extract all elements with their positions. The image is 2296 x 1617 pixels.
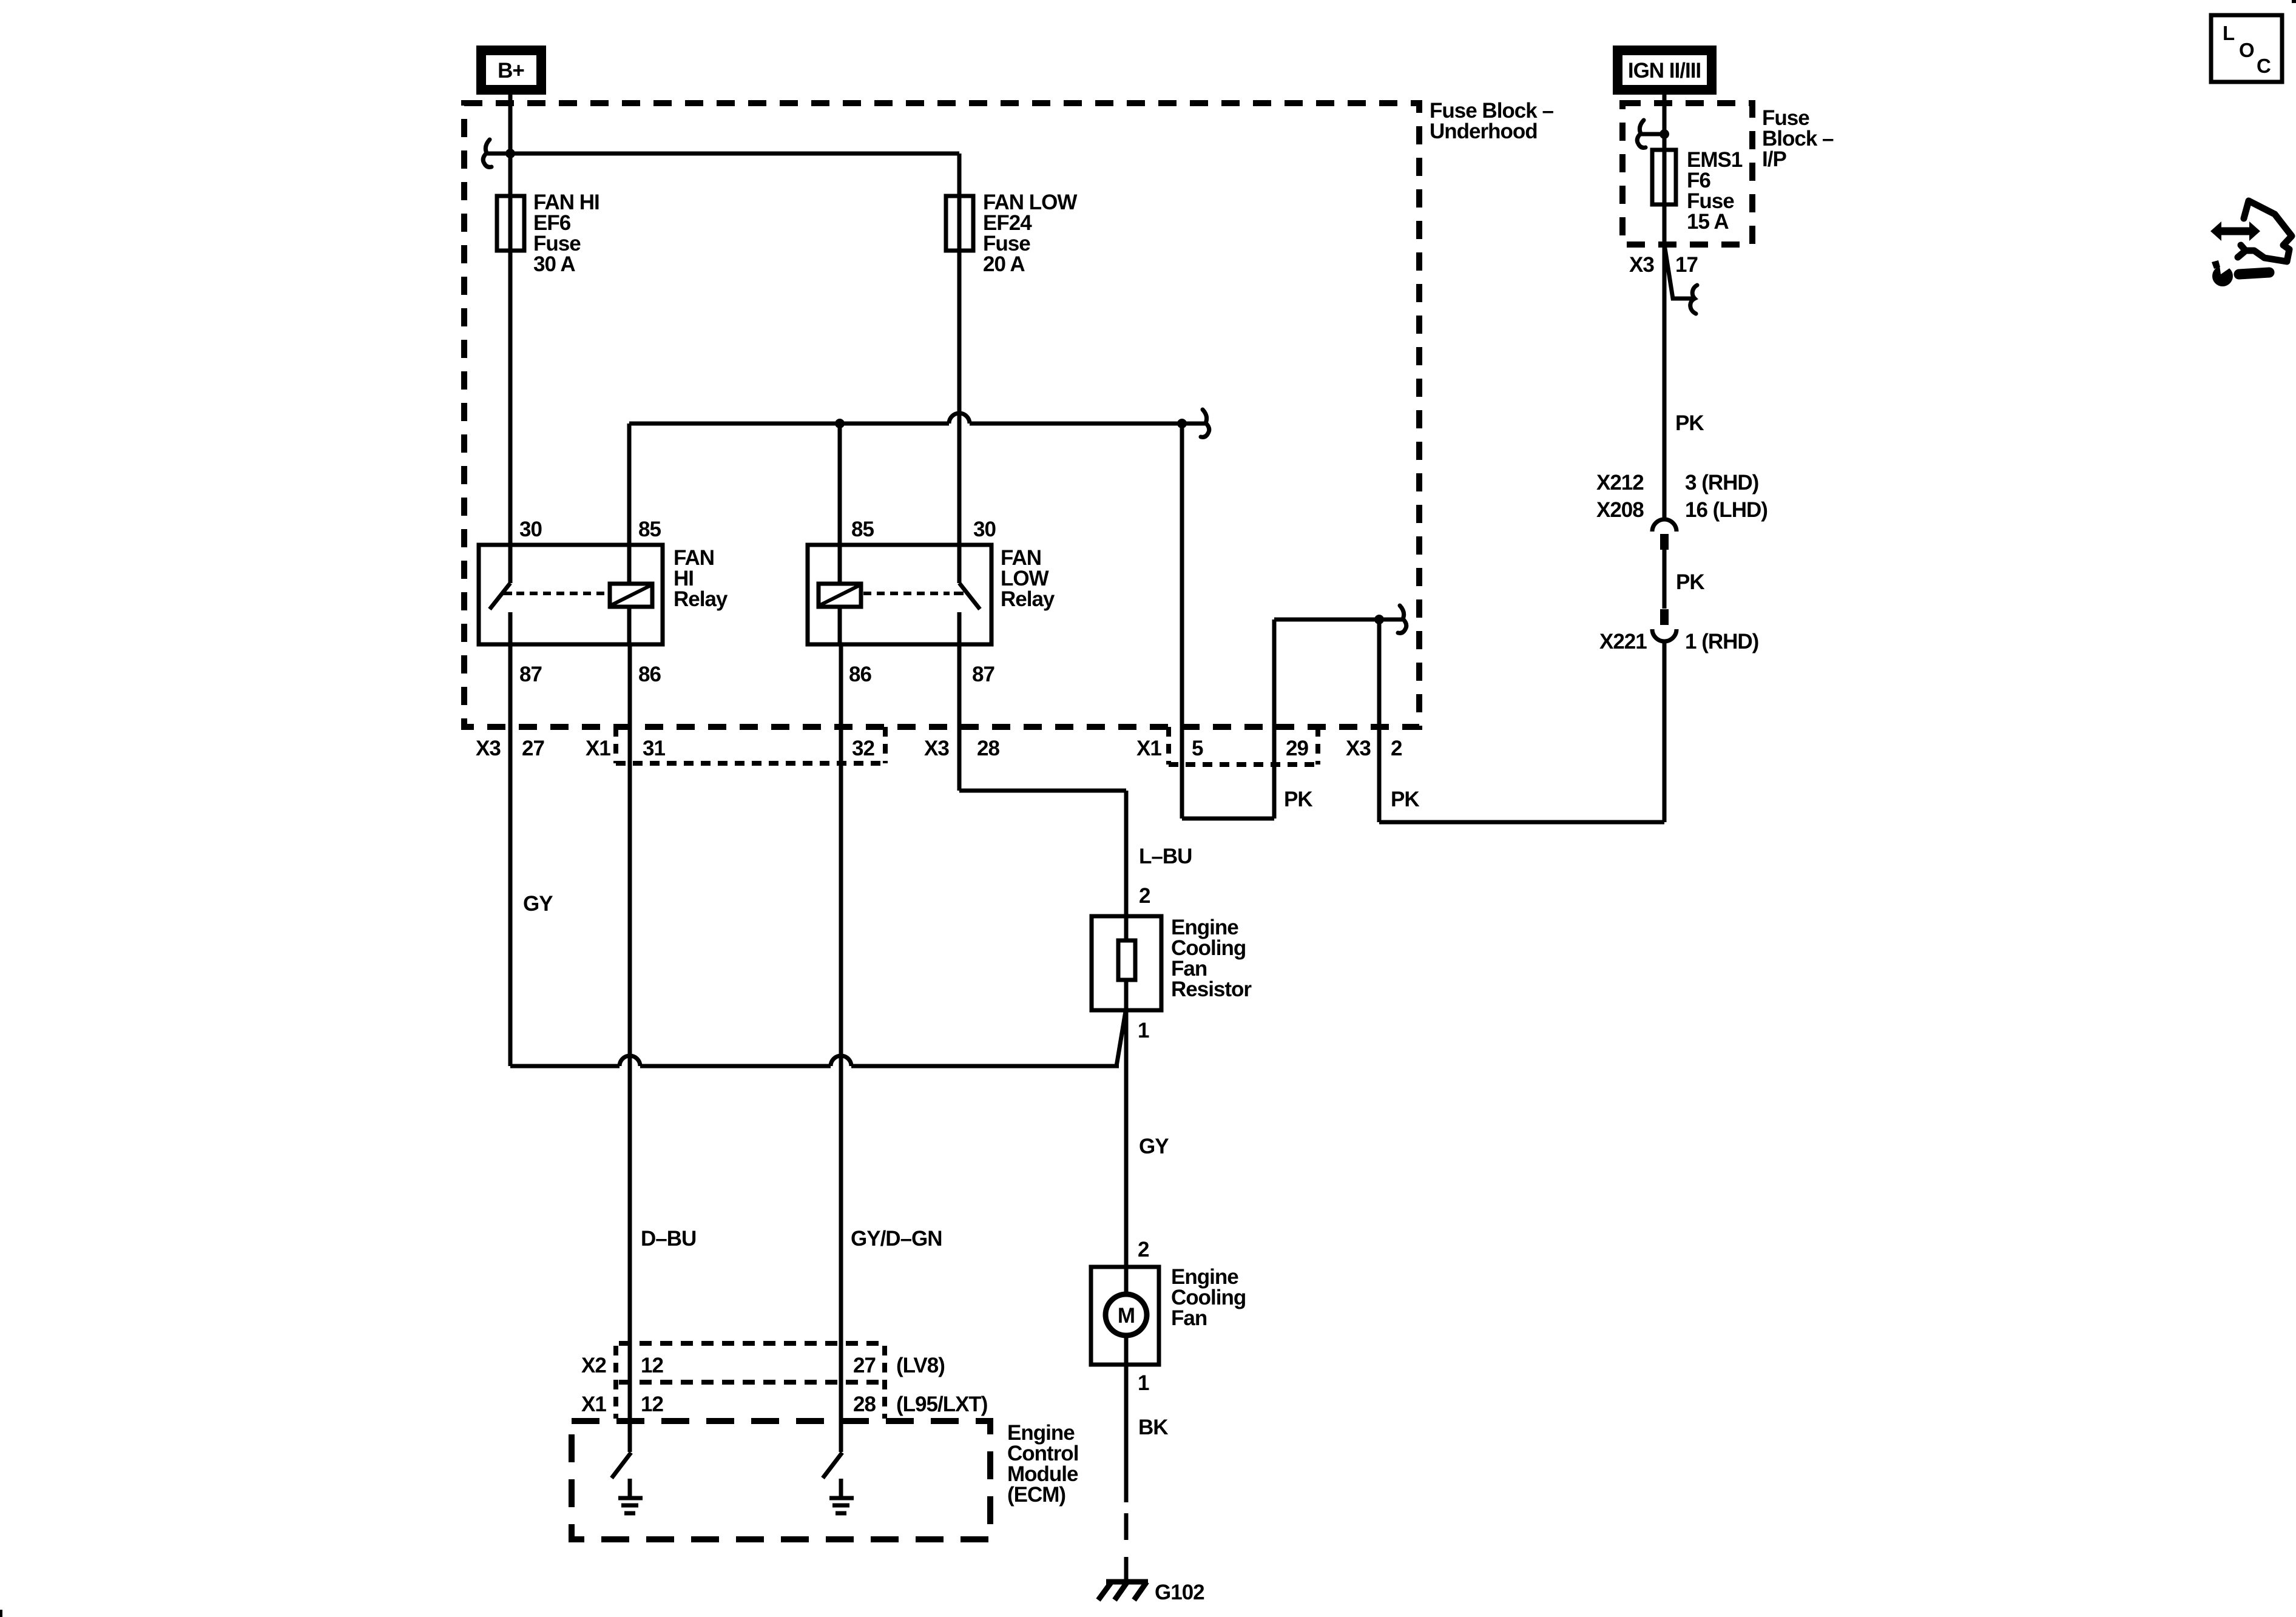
wire relay coil bus right segment (970, 422, 1182, 426)
svg-text:B+: B+ (498, 59, 524, 83)
svg-text:30 A: 30 A (533, 252, 575, 276)
wire FAN HI 87 down (508, 644, 513, 1066)
svg-text:32: 32 (852, 737, 874, 760)
wire up through X1-29 (1272, 619, 1277, 819)
svg-text:D–BU: D–BU (641, 1227, 696, 1251)
svg-text:PK: PK (1675, 411, 1704, 435)
svg-text:X3: X3 (1346, 737, 1371, 760)
ground G102 symbol (1106, 1579, 1148, 1585)
wire hop over D-BU (620, 1056, 640, 1066)
ECM ground blade right (823, 1453, 842, 1478)
svg-text:2: 2 (1391, 737, 1402, 760)
svg-text:28: 28 (853, 1393, 876, 1416)
wire PK bottom run right (1379, 820, 1664, 825)
svg-text:1: 1 (1138, 1019, 1149, 1042)
svg-text:86: 86 (849, 663, 871, 686)
relay FAN HI coil box (610, 584, 652, 607)
wire drop to FAN LOW fuse (957, 154, 962, 196)
wire FAN LOW fuse to relay 30 (957, 251, 962, 545)
wire fan to ground BK (1124, 1365, 1129, 1502)
LOC page icon (2211, 15, 2282, 82)
ECM ground blade left (612, 1453, 631, 1478)
svg-text:Underhood: Underhood (1430, 120, 1538, 143)
relay FAN LOW pin 86 wire out of coil (838, 607, 842, 644)
svg-text:30: 30 (973, 518, 996, 541)
relay FAN HI coil dashed link (516, 592, 607, 595)
wire PK up to X221 (1663, 643, 1667, 822)
svg-text:16 (LHD): 16 (LHD) (1685, 498, 1768, 522)
svg-text:X2: X2 (581, 1354, 606, 1377)
wire resistor pin 1 down (1124, 1010, 1129, 1267)
hook continuation at PK node (1381, 618, 1402, 622)
wire coil bus down through X1-5 (1180, 424, 1184, 819)
svg-text:GY/D–GN: GY/D–GN (851, 1227, 942, 1251)
wire GY bus segment 3 (851, 1064, 1119, 1068)
relay FAN LOW pin 87 stub (957, 612, 962, 644)
svg-text:X3: X3 (924, 737, 949, 760)
junction dot PK node (1374, 615, 1384, 624)
svg-text:O: O (2239, 39, 2254, 61)
svg-text:85: 85 (851, 518, 874, 541)
svg-text:M: M (1118, 1304, 1135, 1328)
svg-text:5: 5 (1192, 737, 1203, 760)
wire between connectors (1663, 550, 1667, 609)
wire dashed to G102 (1124, 1513, 1129, 1584)
relay FAN HI pin 85 wire into box (627, 545, 632, 584)
svg-text:X221: X221 (1599, 630, 1647, 653)
engine cooling fan resistor box (1092, 916, 1161, 1010)
connector X1 dashed box pins 5-29 (1166, 727, 1171, 765)
relay FAN HI box (479, 545, 663, 644)
wire bus down to FAN HI relay 85 (627, 424, 632, 545)
svg-text:(LV8): (LV8) (896, 1354, 945, 1377)
connector X1 dashed box pins 31-32 (613, 727, 618, 763)
svg-text:85: 85 (638, 518, 661, 541)
relay FAN HI switch blade (490, 583, 510, 609)
svg-text:1: 1 (1138, 1371, 1149, 1395)
ECM dashed box (572, 1421, 990, 1539)
page corner mark (2292, 0, 2296, 3)
wire hop over FAN LOW feed (949, 413, 970, 424)
svg-text:87: 87 (519, 663, 542, 686)
svg-text:27: 27 (853, 1354, 876, 1377)
wire GY bus diagonal to resistor pin 1 (1116, 1011, 1126, 1066)
svg-text:(L95/LXT): (L95/LXT) (896, 1393, 987, 1416)
fuse block I/P dashed box (1622, 103, 1752, 245)
wire FAN LOW 87 down (957, 644, 962, 791)
wire FAN LOW 86 down to ECM (839, 644, 843, 1452)
junction dot B+ bus (505, 149, 515, 158)
engine cooling fan box (1091, 1267, 1159, 1365)
svg-text:30: 30 (519, 518, 542, 541)
wire relay coil bus left segment (629, 422, 949, 426)
relay FAN LOW switch blade (959, 583, 980, 609)
relay FAN HI pin 86 wire out of coil (627, 607, 632, 644)
svg-text:3 (RHD): 3 (RHD) (1685, 471, 1758, 495)
svg-text:X1: X1 (586, 737, 610, 760)
wire jog right to resistor (959, 789, 1126, 793)
svg-text:Fan: Fan (1171, 1306, 1207, 1330)
wire GY bus segment 2 (640, 1064, 831, 1068)
relay FAN LOW pin 30 wire into box (957, 545, 962, 583)
svg-text:1 (RHD): 1 (RHD) (1685, 630, 1758, 653)
connector X3-17 stub (1664, 245, 1694, 299)
svg-text:X3: X3 (1629, 253, 1654, 277)
svg-text:GY: GY (1139, 1135, 1169, 1158)
wire GY bus segment 1 (510, 1064, 620, 1068)
svg-text:X1: X1 (581, 1393, 606, 1416)
power label IGN II/III box (1618, 50, 1712, 90)
power label B+ box (481, 50, 541, 90)
svg-text:86: 86 (638, 663, 661, 686)
wire down to resistor pin 2 (1124, 791, 1129, 916)
wire bus down to FAN LOW relay 85 (838, 424, 842, 545)
relay FAN HI pin 87 stub (508, 612, 513, 644)
svg-text:I/P: I/P (1762, 147, 1786, 171)
svg-text:Relay: Relay (1001, 587, 1055, 611)
svg-text:PK: PK (1676, 570, 1704, 594)
svg-text:31: 31 (643, 737, 665, 760)
connector X221 symbol (1660, 609, 1669, 625)
hook continuation at coil bus right (1184, 422, 1205, 426)
relay FAN HI pin 30 wire into box (508, 545, 513, 583)
page corner mark2 (0, 1610, 2, 1617)
svg-text:2: 2 (1138, 1238, 1149, 1261)
fuse EMS1 F6 (1652, 150, 1676, 204)
svg-text:L: L (2223, 22, 2235, 44)
svg-text:BK: BK (1138, 1416, 1168, 1439)
wire PK node down through X3-2 (1377, 619, 1382, 822)
svg-text:12: 12 (641, 1354, 663, 1377)
hook continuation at B+ bus (487, 152, 508, 156)
relay FAN LOW coil box (819, 584, 861, 607)
ECM connector rows dashed (619, 1341, 882, 1346)
svg-text:28: 28 (977, 737, 999, 760)
svg-text:X3: X3 (476, 737, 501, 760)
svg-text:15 A: 15 A (1687, 210, 1729, 234)
wire B+ vertical feed (508, 91, 513, 196)
svg-text:12: 12 (641, 1393, 663, 1416)
svg-text:Relay: Relay (674, 587, 728, 611)
hook continuation at I/P (1641, 132, 1663, 137)
svg-text:PK: PK (1391, 788, 1419, 811)
wire right to junction (1274, 618, 1379, 622)
svg-text:GY: GY (523, 892, 553, 916)
wire bus B+ horizontal (510, 152, 959, 156)
svg-text:X212: X212 (1596, 471, 1644, 495)
svg-text:27: 27 (522, 737, 544, 760)
relay FAN HI blade contact tick (502, 592, 512, 595)
svg-text:L–BU: L–BU (1139, 845, 1192, 868)
wire jog right at bottom (1182, 817, 1274, 821)
fuse FAN HI EF6 (497, 196, 524, 251)
svg-text:C: C (2257, 55, 2271, 77)
svg-text:Resistor: Resistor (1171, 977, 1252, 1001)
fuse FAN LOW EF24 (946, 196, 973, 251)
svg-text:X208: X208 (1596, 498, 1644, 522)
ECM ground symbol left (628, 1479, 632, 1496)
relay FAN LOW box (808, 545, 991, 644)
svg-text:G102: G102 (1155, 1581, 1204, 1604)
wrench-hand repair icon (2210, 201, 2292, 286)
svg-text:PK: PK (1284, 788, 1312, 811)
junction dot coil bus (835, 419, 845, 428)
junction dot coil bus right corner (1177, 419, 1187, 428)
svg-text:17: 17 (1675, 253, 1698, 277)
junction dot I/P (1660, 129, 1669, 139)
relay FAN LOW coil dashed link (863, 592, 950, 595)
relay FAN LOW blade contact tick (954, 592, 964, 595)
svg-text:X1: X1 (1136, 737, 1161, 760)
relay FAN LOW pin 85 wire into box (838, 545, 842, 584)
connector X212/X208 symbol (1652, 519, 1676, 532)
svg-text:IGN II/III: IGN II/III (1628, 59, 1701, 83)
ECM ground symbol right (839, 1479, 843, 1496)
wire FAN HI 86 down to ECM (628, 644, 632, 1452)
wire IGN feed down (1663, 91, 1667, 519)
wire FAN HI fuse to relay 30 (508, 251, 513, 545)
fuse block underhood dashed box (464, 103, 1419, 727)
svg-text:(ECM): (ECM) (1007, 1483, 1065, 1507)
svg-text:20 A: 20 A (983, 252, 1025, 276)
svg-text:2: 2 (1139, 884, 1150, 908)
wire hop over GY/D-GN (831, 1056, 851, 1066)
svg-text:29: 29 (1286, 737, 1308, 760)
svg-text:87: 87 (972, 663, 994, 686)
